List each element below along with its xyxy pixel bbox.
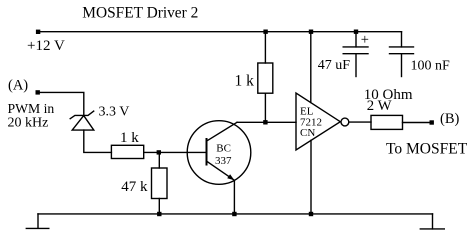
node junction rail/R3 [263, 30, 267, 34]
svg-text:47 k: 47 k [121, 179, 148, 195]
wire ground rail [38, 213, 433, 215]
capacitor C1 47uF plate bottom [343, 53, 368, 55]
ground symbol left bar [26, 227, 49, 229]
svg-text:3.3 V: 3.3 V [99, 104, 130, 119]
svg-text:2 W: 2 W [367, 98, 392, 114]
wire U1 output to R4 [349, 121, 371, 123]
capacitor C2 100nF plate bottom [390, 53, 414, 55]
svg-text:CN: CN [300, 127, 315, 139]
svg-text:100 nF: 100 nF [411, 58, 451, 73]
node junction collector/R3 [263, 120, 267, 124]
node junction R1/R2 [157, 150, 161, 154]
svg-text:1 k: 1 k [120, 130, 139, 146]
ground symbol left stub [37, 214, 39, 228]
wire C1 bottom lead [355, 54, 357, 77]
ground symbol right bar [420, 228, 444, 230]
wire R1 to transistor base [144, 151, 207, 153]
wire C1 top lead [355, 32, 357, 47]
wire collector to U1 input [237, 121, 296, 123]
svg-text:(A): (A) [8, 78, 28, 94]
node junction R2/ground rail [157, 212, 161, 216]
transistor Q1 emitter stroke [207, 162, 234, 181]
node junction emitter/ground rail [232, 212, 236, 216]
capacitor C1 47uF plate top [343, 46, 368, 48]
node B output terminal [430, 120, 434, 124]
wire +12V rail [38, 31, 402, 33]
transistor Q1 BC337 circle [187, 121, 251, 185]
wire U1 power pin [310, 32, 312, 103]
svg-text:+: + [361, 32, 369, 48]
svg-text:BC: BC [216, 143, 231, 155]
svg-text:47 uF: 47 uF [318, 58, 351, 73]
ground symbol right stub [432, 214, 434, 229]
wire emitter to ground rail [233, 180, 235, 214]
svg-text:PWM in: PWM in [8, 101, 55, 116]
node A input terminal [36, 90, 40, 94]
zener diode D1 3.3V cathode bar [70, 111, 94, 119]
resistor R1 1k horizontal [111, 145, 143, 158]
svg-text:MOSFET Driver 2: MOSFET Driver 2 [82, 4, 198, 21]
capacitor C2 100nF plate top [390, 46, 414, 48]
svg-text:+12 V: +12 V [27, 38, 65, 54]
wire R4 to B terminal [403, 122, 431, 124]
wire rail to R3 [264, 32, 266, 63]
resistor R4 10 Ohm [371, 115, 403, 129]
node +12V terminal [36, 30, 40, 34]
wire junction to R2 [158, 152, 160, 168]
svg-text:337: 337 [215, 155, 232, 167]
resistor R2 47k [152, 168, 168, 199]
transistor Q1 collector stroke [207, 122, 237, 141]
wire input A to zener [40, 92, 84, 115]
resistor R3 1k vertical [258, 63, 273, 93]
wire C2 top lead [401, 32, 403, 47]
svg-text:1 k: 1 k [235, 73, 255, 90]
zener diode D1 3.3V triangle [72, 116, 94, 131]
node junction U1/ground rail [309, 212, 313, 216]
wire U1 ground pin [310, 140, 312, 214]
node junction rail/C1 [354, 30, 358, 34]
svg-text:To MOSFET: To MOSFET [386, 140, 468, 157]
svg-text:20 kHz: 20 kHz [8, 116, 49, 131]
wire C2 bottom lead [401, 54, 403, 77]
transistor Q1 base bar [206, 139, 208, 165]
IC U1 EL7212 triangle [296, 93, 340, 150]
wire R2 to ground rail [158, 199, 160, 215]
wire zener to R1 [84, 130, 112, 152]
node junction rail/U1 power [309, 30, 313, 34]
transistor Q1 emitter arrowhead [227, 174, 234, 180]
IC U1 output bubble [341, 118, 349, 126]
wire R3 to collector node [264, 93, 266, 122]
svg-text:(B): (B) [440, 111, 460, 127]
